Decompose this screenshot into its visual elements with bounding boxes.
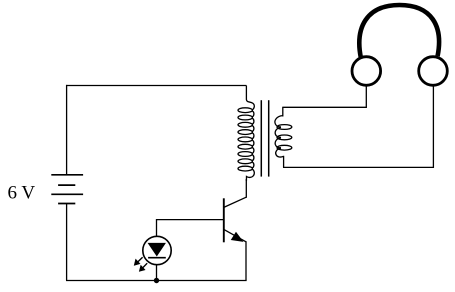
battery B1 long plate 2 bbox=[51, 193, 83, 195]
junction node (LED/bottom rail) bbox=[154, 278, 159, 283]
transformer T1 primary winding bbox=[238, 108, 254, 171]
wire top horizontal (battery+ to primary top) bbox=[66, 85, 246, 87]
transistor Q1 emitter arrow bbox=[232, 233, 243, 242]
wire secondary bottom to right earpiece bbox=[283, 87, 433, 168]
LED D1 circle bbox=[143, 236, 171, 264]
wire bottom rail bbox=[66, 280, 247, 282]
transformer T1 primary bottom lead bbox=[246, 169, 254, 181]
headphones right earpiece bbox=[419, 57, 448, 86]
transistor Q1 base bar bbox=[223, 198, 225, 242]
headphones left earpiece bbox=[352, 57, 381, 86]
LED D1 light arrow 2 bbox=[139, 263, 147, 271]
LED D1 light arrow 1 bbox=[134, 257, 142, 265]
transformer T1 secondary top lead bbox=[282, 107, 284, 116]
wire LED bottom lead bbox=[156, 265, 158, 281]
battery B1 bottom short plate bbox=[58, 203, 75, 205]
wire secondary top to left earpiece bbox=[282, 87, 366, 108]
transistor Q1 emitter bbox=[224, 229, 246, 241]
transformer T1 secondary winding bbox=[275, 116, 292, 157]
wire collector vertical (to primary bottom) bbox=[245, 179, 247, 198]
battery B1 top long plate bbox=[51, 174, 83, 176]
wire base horizontal (LED top to transistor base) bbox=[157, 219, 224, 221]
wire emitter vertical bbox=[245, 241, 247, 280]
svg-text:6 V: 6 V bbox=[8, 183, 36, 204]
wire LED top lead bbox=[156, 219, 158, 236]
headphones band bbox=[359, 5, 439, 59]
transistor Q1 collector bbox=[224, 197, 246, 207]
battery B1 short plate 1 bbox=[58, 184, 75, 186]
transformer T1 secondary bottom lead bbox=[283, 156, 285, 168]
transformer T1 core line 1 bbox=[260, 100, 262, 176]
wire left vertical lower (battery- to bottom rail) bbox=[66, 204, 68, 281]
wire left vertical upper (to battery) bbox=[66, 85, 68, 175]
transformer T1 core line 2 bbox=[268, 100, 270, 176]
LED D1 cathode bar bbox=[148, 257, 166, 259]
transformer T1 primary top lead bbox=[246, 86, 254, 111]
LED D1 triangle (anode) bbox=[149, 243, 166, 255]
